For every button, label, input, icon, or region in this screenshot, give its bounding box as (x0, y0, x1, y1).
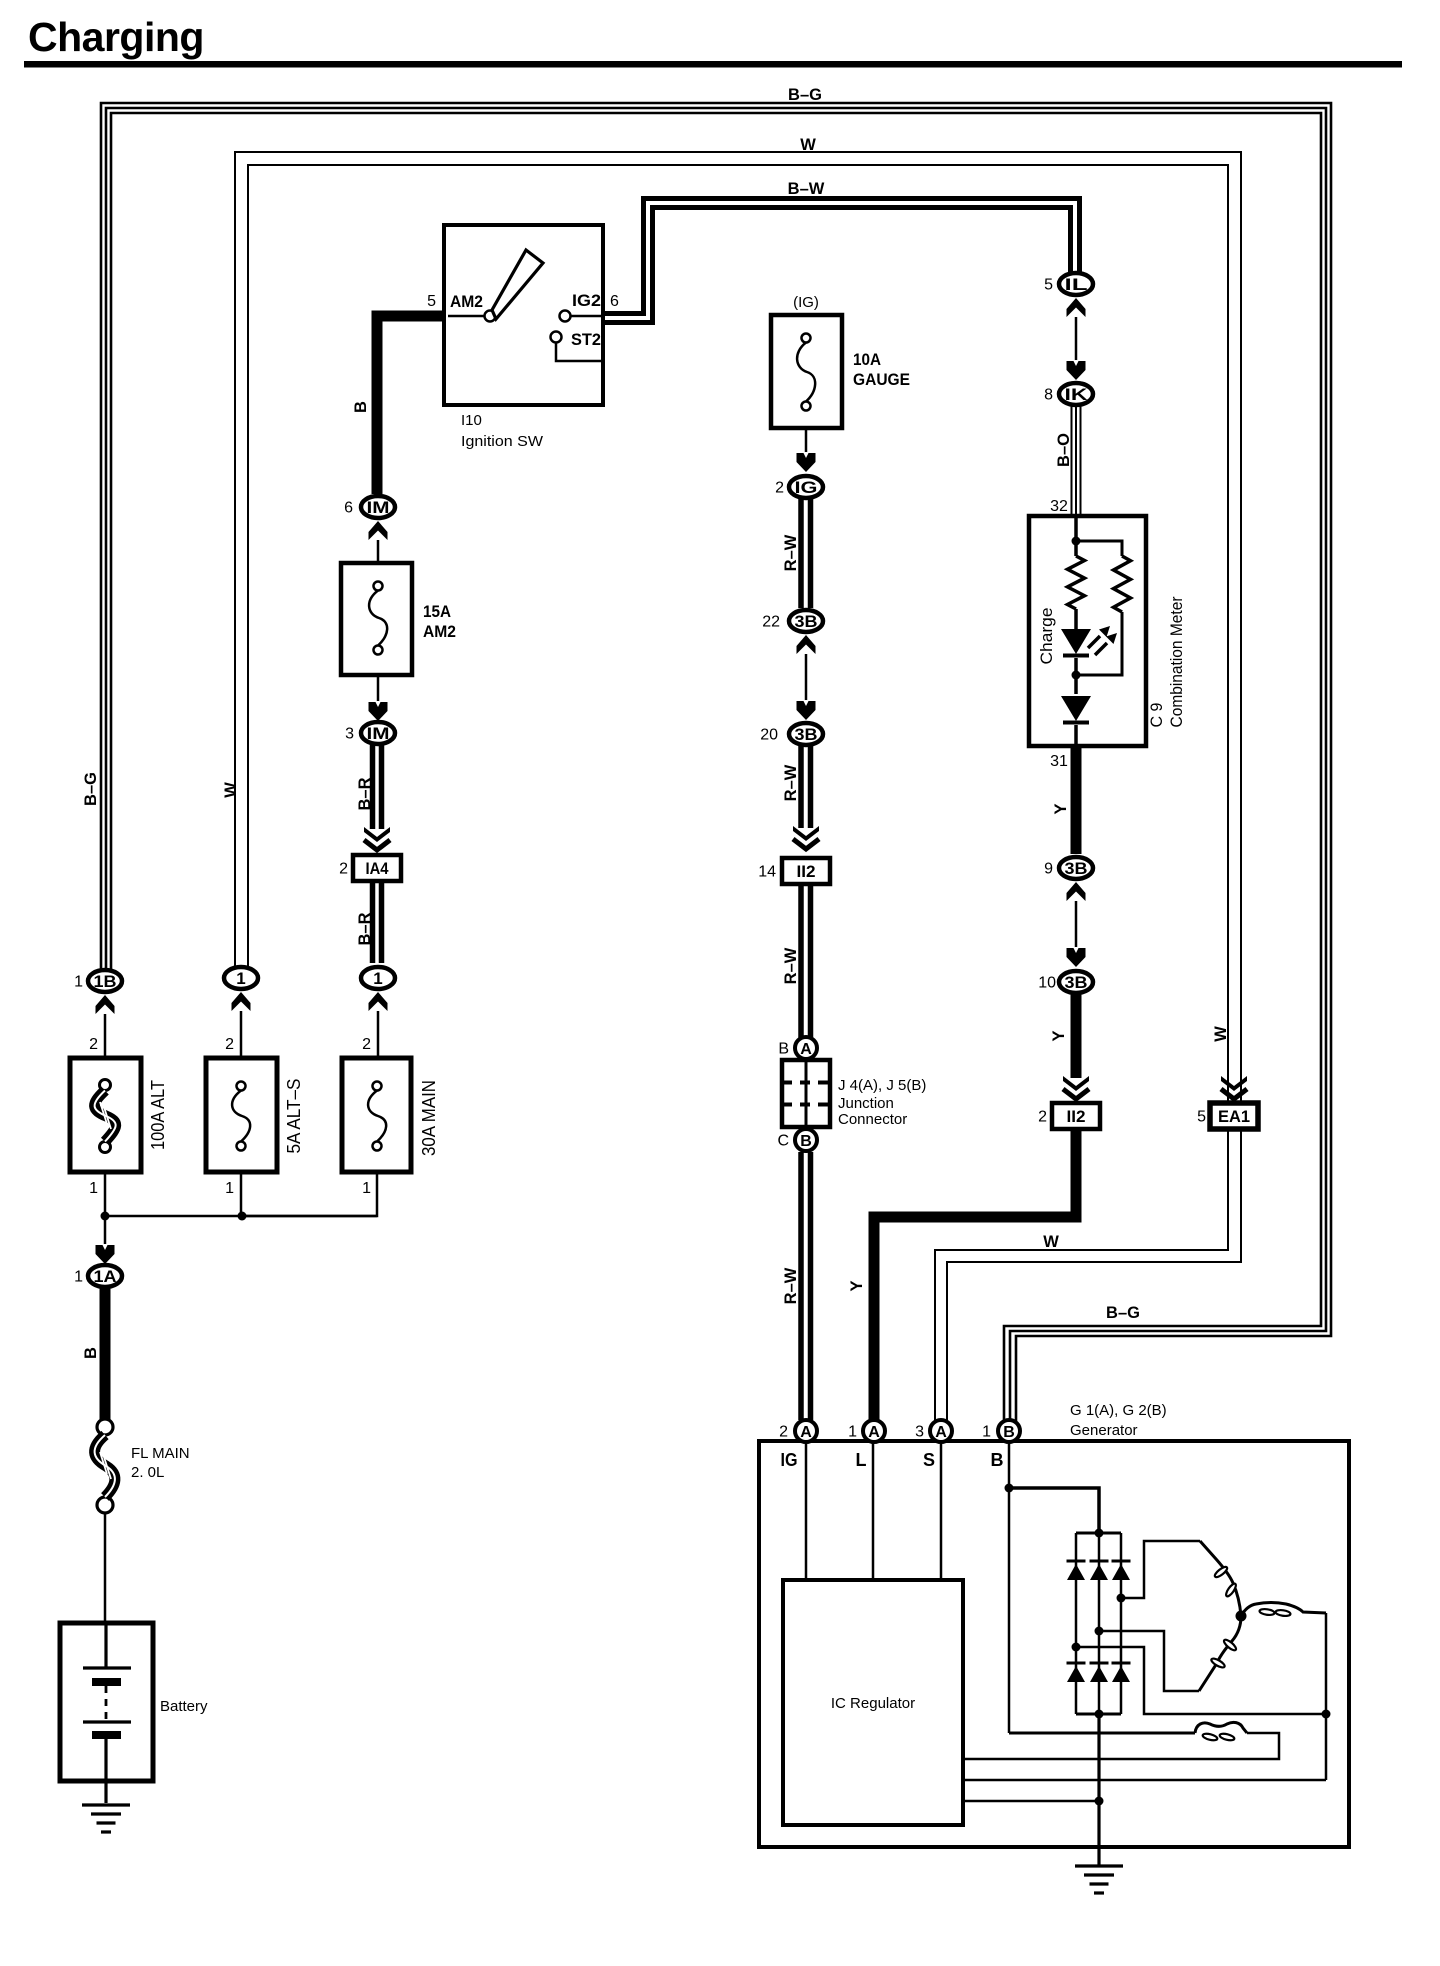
svg-text:A: A (935, 1424, 947, 1441)
connector 1A (88, 1265, 122, 1287)
junction connector J4 J5 (782, 1060, 830, 1127)
wire 3B to 3B (1075, 901, 1078, 947)
node top bus (1095, 1529, 1104, 1538)
wire phase 3 tap (1076, 1647, 1326, 1714)
wire B-R (370, 745, 376, 829)
connector A (795, 1420, 817, 1442)
connector 1 (224, 967, 258, 989)
node bottom bus (1095, 1710, 1104, 1719)
wire 3B to 3B (805, 654, 808, 700)
svg-text:IC Regulator: IC Regulator (831, 1695, 915, 1712)
svg-text:W: W (222, 782, 240, 798)
svg-text:B: B (991, 1450, 1004, 1470)
arrow (369, 702, 388, 721)
connector IK (1059, 383, 1093, 405)
svg-text:B: B (1003, 1424, 1015, 1441)
svg-text:AM2: AM2 (423, 622, 456, 641)
wire IG pin to regulator (805, 1443, 808, 1580)
svg-text:31: 31 (1050, 753, 1068, 770)
svg-text:2. 0L: 2. 0L (131, 1464, 164, 1481)
svg-text:1A: 1A (94, 1267, 117, 1286)
junction node (101, 1212, 110, 1221)
arrow (797, 453, 816, 472)
fuse 5A ALT-S (206, 1058, 277, 1172)
svg-text:A: A (868, 1424, 880, 1441)
wire R-W (798, 746, 804, 828)
wire rotor coil to regulator F (963, 1733, 1279, 1759)
rectifier column 3 (1120, 1533, 1123, 1714)
node meter branch (1072, 537, 1081, 546)
rectifier column 2 (1098, 1533, 1101, 1714)
svg-text:10: 10 (1038, 975, 1056, 992)
wire IG2 lead (570, 315, 603, 318)
wire L pin to regulator (872, 1443, 875, 1580)
arrow (1067, 298, 1086, 317)
wire phase 1 tap (1121, 1541, 1200, 1598)
svg-text:1: 1 (848, 1424, 857, 1441)
svg-text:Battery: Battery (160, 1698, 208, 1715)
svg-text:14: 14 (758, 864, 776, 881)
svg-text:Y: Y (1050, 1030, 1068, 1041)
battery box (60, 1623, 153, 1781)
svg-text:2: 2 (225, 1036, 234, 1053)
double chevron arrow (1063, 1076, 1089, 1091)
svg-text:J 4(A), J 5(B): J 4(A), J 5(B) (838, 1077, 926, 1094)
svg-text:8: 8 (1044, 387, 1053, 404)
svg-text:2: 2 (775, 480, 784, 497)
connector 3B (1059, 857, 1093, 879)
connector 1 (361, 967, 395, 989)
svg-text:3B: 3B (795, 612, 818, 631)
svg-text:FL MAIN: FL MAIN (131, 1445, 190, 1462)
wire regulator ground (963, 1800, 1099, 1803)
connector A (930, 1420, 952, 1442)
diode (1061, 696, 1091, 721)
wire meter branch (1076, 541, 1122, 556)
svg-text:B–R: B–R (356, 777, 374, 810)
stator windings (1200, 1541, 1241, 1616)
rectifier column 1 (1075, 1533, 1078, 1714)
svg-text:S: S (923, 1450, 935, 1470)
wire W (double line) (235, 152, 1241, 1422)
svg-text:2: 2 (779, 1424, 788, 1441)
wire IM to fuse (377, 540, 380, 562)
svg-text:IK: IK (1065, 385, 1089, 404)
svg-text:3B: 3B (1065, 973, 1088, 992)
svg-text:GAUGE: GAUGE (853, 370, 910, 389)
connector B (795, 1129, 817, 1151)
junction bus (105, 1215, 377, 1218)
svg-text:1: 1 (74, 974, 83, 991)
svg-text:5A ALT–S: 5A ALT–S (284, 1079, 304, 1154)
svg-text:A: A (800, 1041, 812, 1058)
svg-text:Y: Y (1052, 803, 1070, 814)
svg-text:IM: IM (367, 498, 390, 517)
svg-text:W: W (1043, 1233, 1059, 1251)
svg-text:IM: IM (367, 724, 390, 743)
wire B thick to ignition switch (377, 316, 444, 494)
svg-text:2: 2 (339, 861, 348, 878)
svg-text:1: 1 (74, 1269, 83, 1286)
wire R-W (798, 884, 804, 1038)
wire regulator sense (963, 1779, 1326, 1782)
wire LED to diode (1074, 658, 1078, 694)
wire Y thick (1071, 746, 1082, 854)
double chevron arrow (793, 826, 819, 841)
svg-text:(IG): (IG) (793, 294, 819, 311)
svg-text:3: 3 (345, 726, 354, 743)
wire 30A MAIN to bus (242, 1172, 377, 1216)
ignition switch lever (492, 250, 543, 319)
wire B-R (370, 881, 376, 963)
svg-text:B: B (800, 1133, 812, 1150)
svg-text:3B: 3B (795, 725, 818, 744)
arrow (369, 992, 388, 1011)
connector EA1 (1210, 1103, 1258, 1129)
combination meter C9 (1029, 516, 1146, 746)
node phase tap 2 (1095, 1627, 1104, 1636)
svg-text:6: 6 (344, 500, 353, 517)
svg-text:1: 1 (373, 969, 382, 988)
wire fuse to IG (805, 428, 808, 452)
svg-text:6: 6 (610, 293, 619, 310)
wire R-W (798, 499, 804, 608)
wire 1 to 30A MAIN (377, 1011, 380, 1057)
fuse 30A MAIN (342, 1058, 411, 1172)
wire shunt branch (1076, 612, 1122, 675)
connector IL (1059, 273, 1093, 295)
wire 5A ALT-S to bus (240, 1172, 243, 1216)
IC regulator (783, 1580, 963, 1825)
rectifier bottom bus (1076, 1713, 1121, 1716)
svg-text:3B: 3B (1065, 859, 1088, 878)
svg-text:B: B (352, 401, 370, 413)
arrow (96, 1245, 115, 1264)
svg-text:C 9: C 9 (1147, 703, 1166, 728)
connector 3B (789, 610, 823, 632)
svg-text:B–G: B–G (1106, 1304, 1140, 1322)
svg-text:1: 1 (225, 1180, 234, 1197)
node stator neutral (1236, 1611, 1247, 1622)
wire phase 2 tap (1099, 1631, 1199, 1691)
wire S pin to regulator (940, 1443, 943, 1580)
connector IA4 (353, 855, 401, 881)
svg-text:20: 20 (760, 727, 778, 744)
connector II2 (1052, 1103, 1100, 1129)
connector A (795, 1037, 817, 1059)
arrow (96, 995, 115, 1014)
svg-text:10A: 10A (853, 350, 881, 369)
wire AM2 pin lead (448, 315, 484, 318)
svg-text:B–G: B–G (788, 86, 822, 104)
svg-text:Charge: Charge (1037, 608, 1056, 665)
svg-text:AM2: AM2 (450, 292, 483, 311)
svg-text:W: W (800, 136, 816, 154)
svg-text:1: 1 (236, 969, 245, 988)
pin IG2 (560, 311, 571, 322)
node ground junction (1095, 1797, 1104, 1806)
pin ST2 (551, 332, 562, 343)
wire B-G battery to generator (triple line) (101, 103, 1331, 1422)
svg-text:R–W: R–W (782, 764, 800, 801)
svg-text:Combination Meter: Combination Meter (1167, 596, 1186, 727)
svg-text:15A: 15A (423, 602, 451, 621)
svg-text:9: 9 (1044, 861, 1053, 878)
connector IM (361, 722, 395, 744)
svg-text:1: 1 (89, 1180, 98, 1197)
resistor (1114, 556, 1131, 612)
wire fuse to IM (377, 675, 380, 701)
svg-text:A: A (800, 1424, 812, 1441)
connector IG (789, 476, 823, 498)
svg-text:IG2: IG2 (572, 291, 601, 310)
fuse 100A ALT (70, 1058, 141, 1172)
wire B-O (triple) (1071, 406, 1073, 516)
node meter branch (1072, 671, 1081, 680)
fusible link FL MAIN 2.0L (97, 1419, 113, 1435)
ground (1075, 1864, 1123, 1867)
connector 3B (1059, 971, 1093, 993)
wire stator phase 3 lead (1325, 1613, 1328, 1780)
svg-text:R–W: R–W (782, 1267, 800, 1304)
connector A (863, 1420, 885, 1442)
node phase tap 3 (1117, 1594, 1126, 1603)
svg-text:2: 2 (362, 1036, 371, 1053)
connector 3B (789, 723, 823, 745)
wire B pin feed (1008, 1443, 1011, 1733)
wire R-W (798, 1152, 804, 1420)
junction node (238, 1212, 247, 1221)
svg-text:5: 5 (1044, 277, 1053, 294)
svg-text:EA1: EA1 (1218, 1107, 1250, 1126)
fuse 15A AM2 (341, 563, 412, 675)
ignition switch I10 box (444, 225, 603, 405)
arrow (1067, 882, 1086, 901)
svg-text:L: L (856, 1450, 867, 1470)
double chevron arrow (364, 827, 390, 842)
svg-text:IG: IG (781, 1450, 798, 1470)
svg-text:5: 5 (427, 293, 436, 310)
svg-text:B–O: B–O (1055, 433, 1073, 467)
double chevron arrow (1221, 1076, 1247, 1091)
connector 1B (88, 970, 122, 992)
svg-text:Connector: Connector (838, 1111, 907, 1128)
svg-text:100A ALT: 100A ALT (148, 1080, 168, 1150)
svg-text:C: C (777, 1133, 789, 1150)
svg-text:32: 32 (1050, 498, 1068, 515)
svg-text:Charging: Charging (28, 14, 204, 60)
connector II2 (782, 858, 830, 884)
generator box (759, 1441, 1349, 1847)
svg-text:30A MAIN: 30A MAIN (419, 1080, 439, 1156)
svg-text:B–G: B–G (82, 772, 100, 806)
wire generator ground lead (1097, 1714, 1100, 1866)
connector IM (361, 496, 395, 518)
arrow (797, 701, 816, 720)
wire B-W (double thick line) (604, 199, 1080, 314)
node phase 3 (1322, 1710, 1331, 1719)
svg-text:I10: I10 (461, 412, 482, 429)
svg-text:Ignition SW: Ignition SW (461, 433, 544, 450)
wire B to rectifier (1009, 1488, 1099, 1533)
arrow (1067, 361, 1086, 380)
connector B (998, 1420, 1020, 1442)
wire 1B to 100A ALT (104, 1014, 107, 1057)
svg-text:5: 5 (1197, 1109, 1206, 1126)
svg-text:R–W: R–W (782, 947, 800, 984)
svg-text:B–W: B–W (788, 180, 825, 198)
charge LED (1061, 629, 1091, 654)
svg-text:B: B (778, 1041, 789, 1058)
arrow (369, 521, 388, 540)
svg-text:B: B (82, 1347, 100, 1359)
wire 100A ALT to 1A (104, 1172, 107, 1244)
resistor (1068, 556, 1085, 609)
rectifier top bus (1076, 1532, 1121, 1535)
diodes lower (1067, 1662, 1086, 1665)
svg-text:Y: Y (848, 1280, 866, 1291)
node B branch (1005, 1484, 1014, 1493)
svg-text:IG: IG (795, 478, 818, 497)
svg-text:II2: II2 (797, 862, 816, 881)
svg-text:IA4: IA4 (366, 859, 389, 878)
wire IL to IK (1075, 317, 1078, 360)
svg-text:1B: 1B (94, 972, 117, 991)
svg-text:W: W (1212, 1026, 1230, 1042)
svg-text:IL: IL (1065, 275, 1088, 294)
wire ST2 lead (556, 342, 603, 361)
wire FL MAIN to battery (104, 1513, 107, 1622)
wire Y thick (874, 1129, 1076, 1420)
wire B to rotor coil (1009, 1732, 1195, 1735)
svg-text:Generator: Generator (1070, 1422, 1138, 1439)
diodes upper (1067, 1560, 1086, 1563)
svg-text:ST2: ST2 (571, 330, 601, 349)
svg-text:Junction: Junction (838, 1095, 894, 1112)
svg-text:1: 1 (362, 1180, 371, 1197)
svg-text:3: 3 (915, 1424, 924, 1441)
wire B thick (100, 1288, 111, 1420)
arrow (232, 992, 251, 1011)
svg-text:1: 1 (982, 1424, 991, 1441)
fuse 10A GAUGE (771, 315, 842, 428)
svg-text:2: 2 (1038, 1109, 1047, 1126)
wire resistor to LED (1074, 609, 1078, 629)
svg-text:G 1(A), G 2(B): G 1(A), G 2(B) (1070, 1402, 1167, 1419)
arrow (797, 635, 816, 654)
arrow (1067, 948, 1086, 967)
svg-text:II2: II2 (1067, 1107, 1086, 1126)
svg-text:22: 22 (762, 614, 780, 631)
wire meter pin 32 (1074, 518, 1078, 556)
ignition switch pivot AM2 (485, 311, 496, 322)
ground (82, 1803, 130, 1806)
node phase tap 1 (1072, 1643, 1081, 1652)
battery cell plates (104, 1623, 107, 1668)
wire diode to pin 31 (1074, 725, 1078, 744)
wire Y thick (1071, 994, 1082, 1078)
svg-text:R–W: R–W (782, 534, 800, 571)
svg-text:2: 2 (89, 1036, 98, 1053)
svg-text:B–R: B–R (356, 912, 374, 945)
wire 1 to 5A ALT-S (240, 1011, 243, 1057)
